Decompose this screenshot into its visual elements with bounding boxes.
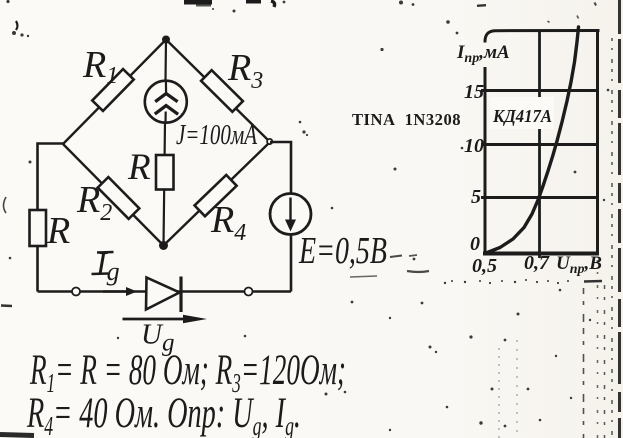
- graph gridline 0,7: [538, 31, 541, 259]
- terminal right: [245, 288, 253, 296]
- svg-text:E=0,5В: E=0,5В: [298, 230, 387, 272]
- svg-text:0,7: 0,7: [524, 252, 550, 274]
- svg-text:15: 15: [464, 81, 484, 103]
- node bottom: [159, 241, 168, 250]
- svg-text:0,5: 0,5: [472, 255, 497, 277]
- graph frame: [483, 31, 600, 254]
- terminal left: [72, 288, 80, 296]
- graph gridline 10: [481, 143, 598, 146]
- resistor R1: [92, 69, 134, 111]
- svg-text:TINA 1N3208: TINA 1N3208: [352, 110, 461, 129]
- resistor R bridge middle: [156, 155, 174, 190]
- resistor R left: [30, 210, 47, 246]
- wire bridge top-left edge: [63, 40, 166, 145]
- wire left branch: [38, 144, 64, 292]
- node right: [267, 139, 272, 144]
- node top: [162, 36, 170, 44]
- current arrow Ig: [103, 287, 137, 296]
- resistor R3: [201, 70, 243, 112]
- resistor R4: [195, 175, 237, 216]
- graph gridline 15: [481, 89, 598, 92]
- svg-text:10: 10: [464, 135, 484, 157]
- svg-text:J=100мА: J=100мА: [176, 119, 257, 151]
- wire bottom: [38, 290, 292, 292]
- svg-text:КД417А: КД417А: [492, 106, 552, 126]
- voltage arrow Ug: [123, 315, 208, 323]
- svg-text:R: R: [46, 210, 70, 252]
- label КД417А: [490, 97, 554, 129]
- svg-text:R: R: [127, 147, 151, 188]
- wire right branch: [270, 142, 291, 292]
- wire bridge top-right edge: [166, 40, 270, 143]
- voltage source E: [270, 194, 311, 235]
- wire bridge bottom-right edge: [164, 142, 271, 246]
- wire middle branch: [164, 40, 167, 246]
- resistor R2: [98, 177, 140, 219]
- svg-text:0: 0: [470, 233, 480, 255]
- current source J: [145, 80, 187, 123]
- diode VD: [146, 277, 181, 313]
- graph curve: [486, 27, 579, 253]
- svg-text:5: 5: [471, 186, 481, 208]
- svg-text:Iпр,мА: Iпр,мА: [456, 42, 510, 66]
- wire bridge bottom-left edge: [63, 144, 164, 246]
- label Ig: [92, 245, 120, 286]
- graph gridline 5: [481, 196, 598, 199]
